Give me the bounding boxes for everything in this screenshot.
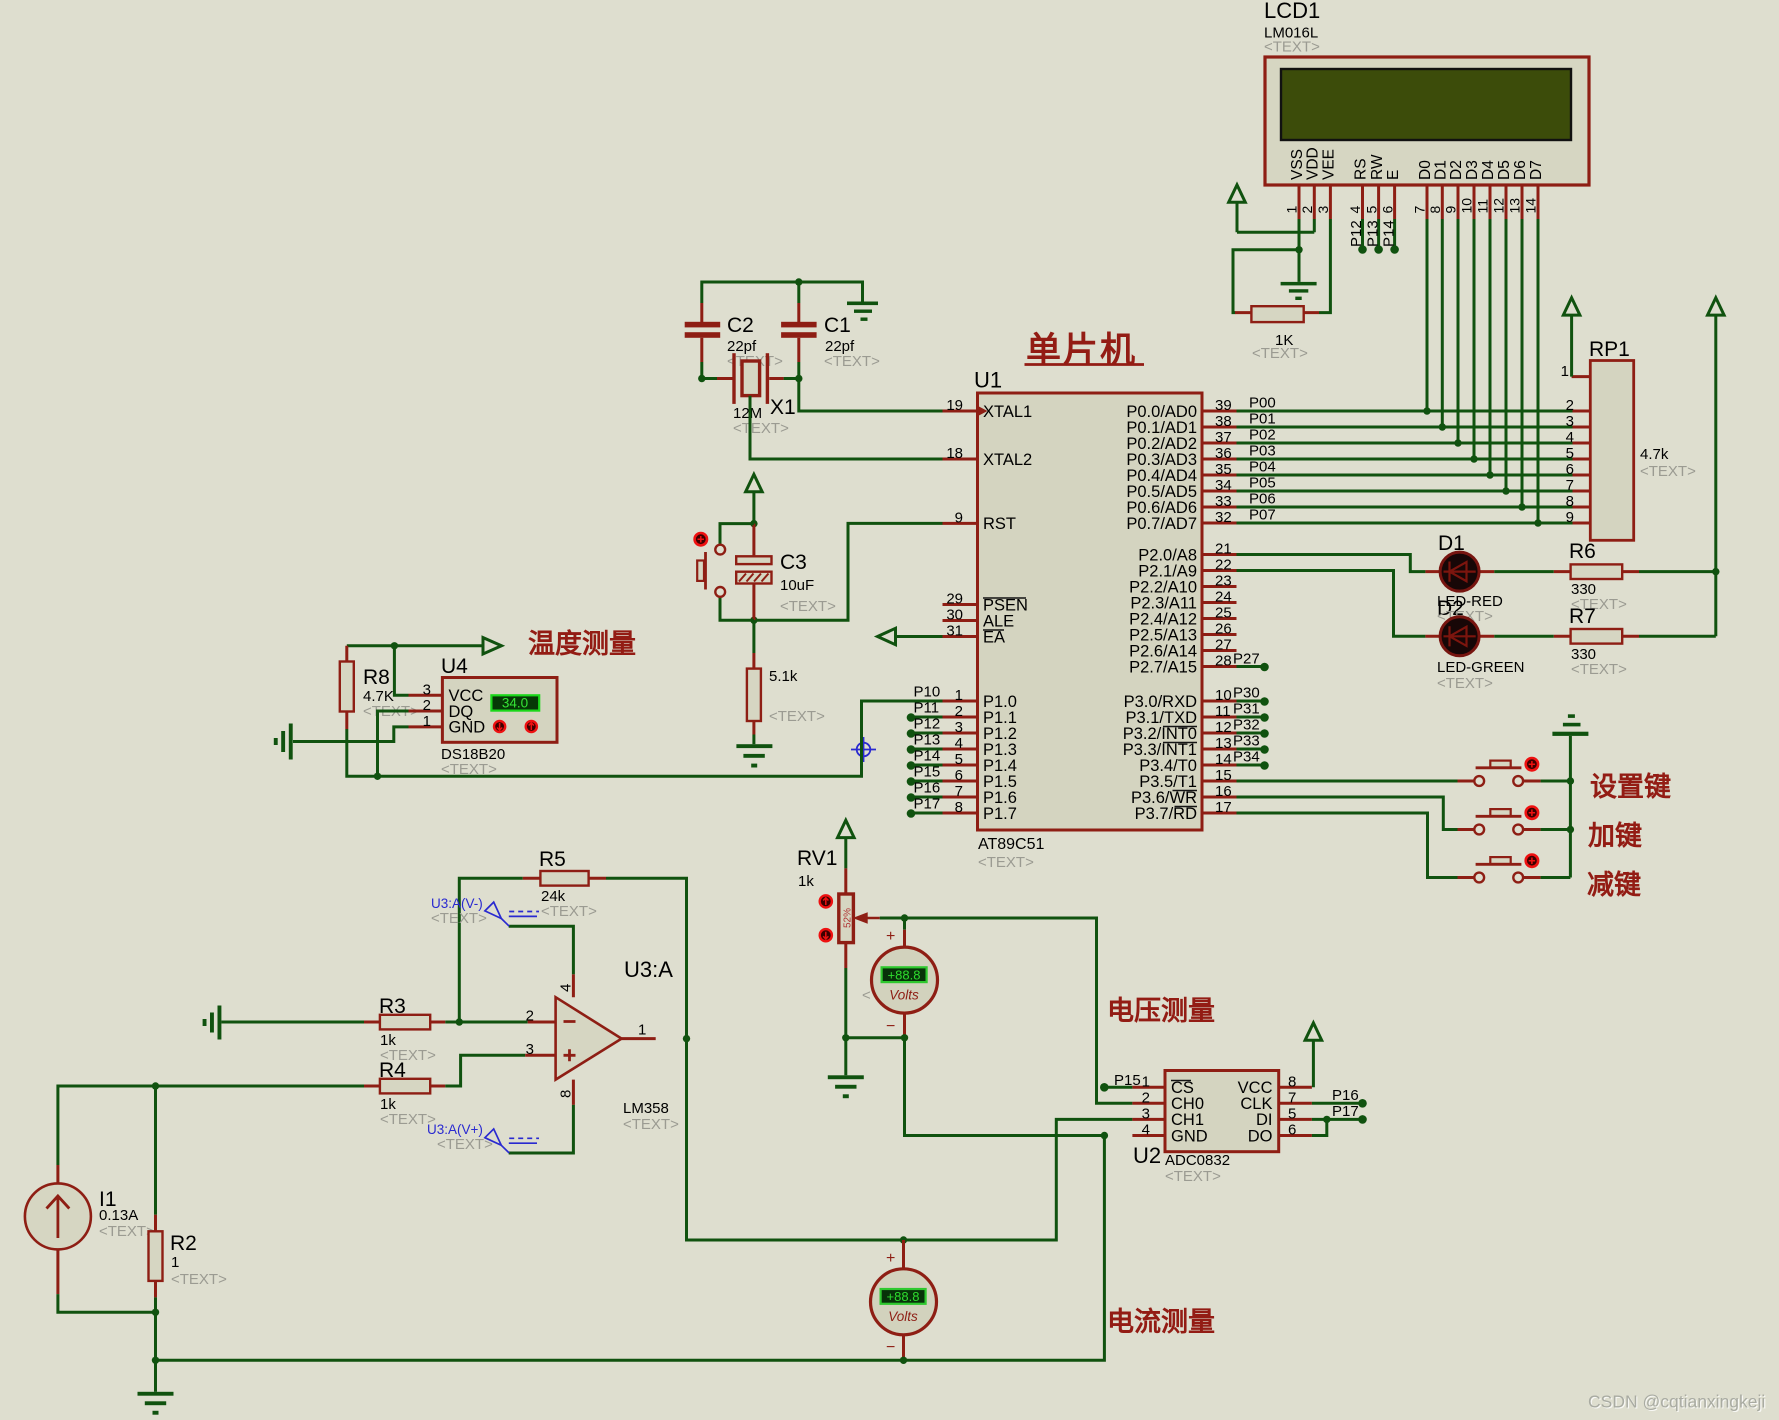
svg-text:ADC0832: ADC0832 [1165,1152,1230,1169]
svg-text:17: 17 [1215,799,1232,816]
U2 TEXT placeholder [1165,1168,1221,1185]
svg-text:<TEXT>: <TEXT> [437,1136,493,1153]
svg-text:<TEXT>: <TEXT> [780,598,836,615]
R5 TEXT placeholder [541,903,597,920]
title 单片机 [1025,331,1145,370]
svg-text:<TEXT>: <TEXT> [978,854,1034,871]
R2 TEXT placeholder [171,1271,227,1288]
svg-text:R3: R3 [379,995,406,1018]
svg-text:4.7k: 4.7k [1640,446,1669,463]
virtual terminal U3:A(V+) [485,1129,539,1153]
C1 TEXT placeholder [824,353,880,370]
svg-text:<TEXT>: <TEXT> [1252,345,1308,362]
wire DQ to P10 [378,711,409,776]
svg-text:1: 1 [955,687,963,704]
terminal nodes P11-P17 [907,713,916,818]
svg-text:P31: P31 [1233,701,1260,718]
wire minus key to rail [1541,876,1571,879]
svg-text:1: 1 [1142,1073,1150,1090]
net labels P10-P17 [914,684,941,813]
svg-text:7: 7 [1412,206,1428,214]
svg-text:18: 18 [946,445,963,462]
I1 value 0.13A [99,1207,138,1224]
svg-text:3: 3 [1315,206,1331,214]
wire D4 column [1489,219,1492,475]
svg-text:<TEXT>: <TEXT> [541,903,597,920]
op-amp U1 reference label [974,368,1002,393]
wires P30-P34 stubs [1237,701,1262,765]
U2 reference label [1133,1143,1161,1168]
ground for R3 [203,1006,222,1040]
ground above C1 [847,302,878,321]
svg-text:6: 6 [1379,206,1395,214]
terminal node P15 on CS [1100,1083,1109,1092]
LCD1 pin names VSS VDD VEE RS RW E D0-D7 [1289,147,1545,180]
VM1 TEXT remnant [862,987,871,1004]
svg-text:P27: P27 [1233,651,1260,668]
svg-text:2: 2 [1299,206,1315,214]
svg-text:GND: GND [1171,1127,1208,1145]
svg-text:D4: D4 [1480,160,1497,180]
junction DI DO node [1323,1116,1330,1123]
wire pin4 to V- terminal [509,926,574,974]
svg-text:13: 13 [1507,198,1523,214]
wire RV1 bottom to ground [844,968,847,1075]
junction VM2 minus node [900,1357,907,1364]
wire DO tied to DI [1312,1119,1327,1135]
terminal node P33 [1233,733,1269,754]
svg-text:P15: P15 [914,764,941,781]
I1 TEXT placeholder [99,1223,155,1240]
svg-text:32: 32 [1215,509,1232,526]
adc U2 ADC0832 body [1132,1071,1312,1152]
wire I1 top to R4 row [58,1086,364,1165]
svg-text:3: 3 [1566,413,1574,430]
wire CLK to P16 [1312,1102,1359,1105]
LED D1 red [1425,552,1494,591]
R8 TEXT placeholder [363,703,419,720]
R5 value 24k [541,888,566,905]
svg-text:26: 26 [1215,621,1232,638]
wire D3 column [1473,219,1476,459]
U1 TEXT placeholder [978,854,1034,871]
svg-text:6: 6 [1566,461,1574,478]
svg-text:9: 9 [955,509,963,526]
wire P00 row [1237,410,1573,413]
wire U4 GND to ground [293,727,409,742]
C2 TEXT placeholder [727,353,783,370]
svg-text:LCD1: LCD1 [1264,0,1320,23]
junction R2 top node [152,1082,159,1089]
wire P03 row [1237,458,1573,461]
wire D6 column [1521,219,1524,507]
wire R3 to junction [445,1021,459,1024]
D2 TEXT placeholder [1437,675,1493,692]
voltmeter VM1 plus mark [886,928,895,945]
resistor R4 [364,1079,445,1094]
svg-text:25: 25 [1215,605,1232,622]
svg-text:1k: 1k [798,873,814,890]
svg-text:4: 4 [1566,429,1574,446]
wire DI to P17 [1312,1118,1359,1121]
label 加键 [1588,820,1642,851]
junction R8 top node [391,642,398,649]
svg-text:+: + [886,1250,895,1267]
LCD1 pin numbers 1-14 [1284,198,1539,214]
ground below RV1 [828,1075,864,1098]
svg-text:36: 36 [1215,445,1232,462]
svg-text:1: 1 [638,1022,646,1039]
resistor R5 feedback [523,871,606,886]
wire VCC to U4 VCC pin [394,646,408,696]
wire crystal top to ground [702,282,863,303]
svg-text:P16: P16 [914,780,941,797]
svg-text:4: 4 [558,984,575,992]
5.1k TEXT placeholder [769,708,825,725]
D1 value LED-RED [1437,593,1503,610]
D1 TEXT placeholder [1437,608,1493,625]
RV1 reference label [797,847,837,870]
power terminal VCC for RP1 [1563,298,1580,377]
svg-text:4: 4 [955,735,963,752]
minus key actuator [1526,855,1538,867]
R6 value 330 [1571,581,1596,598]
svg-text:24: 24 [1215,589,1232,606]
wire P35 to set key [1237,780,1458,783]
svg-text:8: 8 [1288,1073,1296,1090]
X1 value 12M [733,405,762,422]
svg-text:温度测量: 温度测量 [528,628,636,659]
wire R2 top [154,1086,157,1215]
D2 reference label [1437,597,1464,620]
U3:A(V-) TEXT placeholder [431,910,487,927]
svg-text:P16: P16 [1332,1087,1359,1104]
junction crystal top node [795,278,802,285]
wire D2 column [1457,219,1460,443]
U4 up button [526,721,537,732]
LED D2 green [1425,617,1494,656]
U4 TEXT placeholder [441,761,497,778]
svg-text:U3:A: U3:A [624,957,673,982]
svg-text:8: 8 [1566,493,1574,510]
watermark CSDN [1588,1391,1766,1412]
svg-text:AT89C51: AT89C51 [978,836,1045,853]
wire P36 to plus key [1237,797,1458,830]
U3:A value LM358 [623,1100,669,1117]
svg-text:13: 13 [1215,735,1232,752]
svg-text:6: 6 [1288,1122,1296,1139]
U2 value ADC0832 [1165,1152,1230,1169]
svg-text:R6: R6 [1569,540,1596,563]
svg-text:RP1: RP1 [1589,338,1630,361]
svg-text:21: 21 [1215,541,1232,558]
U4 pin numbers 3 2 1 [423,681,431,730]
RP1 pin numbers [1561,363,1574,526]
U2 CS overline [1171,1080,1191,1082]
power terminal VCC for reset [746,474,763,523]
wire plus key to rail [1541,828,1571,831]
wire P15 to CS [1104,1086,1132,1089]
terminal node P14 [1390,245,1399,254]
LCD1 screen [1281,69,1571,140]
svg-text:P06: P06 [1249,491,1276,508]
terminal node P31 [1233,701,1269,722]
terminal node P12 [1358,245,1367,254]
RP1 reference label [1589,338,1630,361]
svg-text:<: < [862,987,871,1004]
terminal node P27 [1233,651,1269,672]
svg-text:4: 4 [1347,206,1363,214]
U3:A(V+) label [427,1122,483,1137]
svg-text:电压测量: 电压测量 [1107,996,1215,1026]
svg-text:<TEXT>: <TEXT> [769,708,825,725]
RP1 value 4.7k [1640,446,1669,463]
wire P27 stub [1237,665,1262,668]
svg-text:D5: D5 [1496,160,1513,180]
wire wiper node to voltmeter plus [903,918,906,930]
U1 left pin stubs [943,411,978,813]
C2 reference label [727,314,754,337]
junction plus key node [1567,826,1574,833]
wire reset button top [720,524,754,544]
wire P20 to D1 [1237,555,1426,572]
R8 reference label [363,666,390,689]
power terminal VCC for ADC [1305,1023,1322,1088]
junction crystal left node [698,375,705,382]
U1 clock input arrow on XTAL1 [978,406,988,416]
svg-text:C2: C2 [727,314,754,337]
LCD1 TEXT placeholder [1264,39,1320,56]
RV1 percent label [843,908,854,928]
terminal node P34 [1233,749,1269,770]
U3:A(V+) TEXT placeholder [437,1136,493,1153]
RV1 up button [820,895,832,907]
temperature sensor U4 DS18B20 [409,678,558,743]
wire bottom node to ground [154,1360,157,1392]
LCD1 value LM016L [1264,25,1318,42]
svg-text:30: 30 [946,607,963,624]
push button set key [1458,761,1541,786]
svg-text:R8: R8 [363,666,390,689]
RV1 wiper arrow [856,914,880,922]
junction set key node [1567,777,1574,784]
wire D0 column [1426,219,1429,411]
svg-text:U3:A(V-): U3:A(V-) [431,896,483,911]
svg-text:8: 8 [558,1090,575,1098]
output terminal arrow temperature [483,638,502,654]
junction DQ node [374,773,381,780]
svg-text:电流测量: 电流测量 [1107,1307,1215,1337]
U1 right pin names [1123,403,1197,823]
wire reset button bottom [720,598,754,621]
svg-text:LM358: LM358 [623,1100,669,1117]
C3 reference label [780,551,807,574]
svg-text:<TEXT>: <TEXT> [1165,1168,1221,1185]
wires P11-P17 stubs to terminals [911,717,943,813]
svg-text:P17: P17 [914,796,941,813]
terminal node P32 [1233,717,1269,738]
svg-text:38: 38 [1215,413,1232,430]
svg-text:P03: P03 [1249,443,1276,460]
U2 pin numbers [1142,1073,1297,1138]
push button plus key [1458,809,1541,834]
svg-text:R7: R7 [1569,605,1596,628]
U4 reference label [441,655,468,678]
wire VM1 minus to ADC ground [846,1038,1105,1136]
power terminal VCC for LEDs [1708,298,1725,315]
svg-text:12: 12 [1215,719,1232,736]
wire reset to 5.1k [752,620,755,653]
R7 value 330 [1571,646,1596,663]
crystal X1 [717,353,784,404]
voltmeter VM1 [872,930,938,1038]
svg-text:Volts: Volts [889,988,919,1003]
svg-text:5: 5 [1288,1105,1296,1122]
virtual terminal U3:A(V-) [485,902,539,926]
svg-text:10uF: 10uF [780,577,814,594]
resistor R3 [364,1015,445,1030]
svg-text:P34: P34 [1233,749,1260,766]
svg-text:22: 22 [1215,557,1232,574]
svg-text:减键: 减键 [1587,869,1641,900]
svg-text:<TEXT>: <TEXT> [1437,675,1493,692]
capacitor C1 [781,303,817,362]
svg-text:5: 5 [955,751,963,768]
svg-text:R4: R4 [379,1059,406,1082]
current source I1 [25,1165,91,1294]
svg-text:D1: D1 [1438,532,1465,555]
resistor 1K value label [1275,332,1293,349]
svg-text:P33: P33 [1233,733,1260,750]
C3 value 10uF [780,577,814,594]
svg-text:<TEXT>: <TEXT> [99,1223,155,1240]
U3:A pin numbers [526,984,647,1098]
D1 reference label [1438,532,1465,555]
svg-text:D3: D3 [1464,160,1481,180]
svg-text:D2: D2 [1448,160,1465,180]
wire D1 column [1441,219,1444,427]
svg-text:52%: 52% [843,908,854,928]
svg-text:<TEXT>: <TEXT> [441,761,497,778]
svg-text:P13: P13 [914,732,941,749]
svg-text:<TEXT>: <TEXT> [824,353,880,370]
U2 right pin names [1238,1079,1273,1145]
svg-text:CSDN @cqtianxingkeji: CSDN @cqtianxingkeji [1588,1391,1765,1411]
junction RV1 bottom node [842,1034,849,1041]
svg-text:加键: 加键 [1588,820,1642,851]
svg-text:28: 28 [1215,653,1232,670]
svg-text:5: 5 [1566,445,1574,462]
R5 reference label [539,848,566,871]
wire EA to input terminal [896,635,943,638]
wire VSS to ground [1298,219,1301,282]
U1 value AT89C51 [978,836,1045,853]
wire R5 left to inverting input [459,878,527,1022]
R3 TEXT placeholder [380,1047,436,1064]
svg-text:4: 4 [1142,1122,1150,1139]
svg-text:9: 9 [1443,206,1459,214]
push button reset [697,545,725,597]
wire D2 to R7 [1494,635,1554,638]
svg-text:P3.7/RD: P3.7/RD [1135,805,1197,823]
node labels P12 P13 P14 [1348,220,1397,247]
LCD1 LM016L display module [1265,57,1589,185]
svg-text:P30: P30 [1233,685,1260,702]
svg-text:<TEXT>: <TEXT> [733,420,789,437]
wire P37 to minus key [1237,813,1458,878]
wire C1 to crystal right to XTAL1 [784,362,943,411]
svg-text:19: 19 [946,397,963,414]
wire P02 row [1237,442,1573,445]
wire VCC rail to terminal [347,644,483,647]
svg-text:1: 1 [423,713,431,730]
U1 PSEN and EA overlines [983,598,1026,630]
svg-text:14: 14 [1523,198,1539,214]
net label P15 [1114,1072,1141,1089]
svg-text:P13: P13 [1364,220,1381,247]
svg-text:P14: P14 [914,748,941,765]
ground for LCD VSS [1281,282,1317,300]
svg-text:−: − [886,1018,895,1035]
svg-text:P12: P12 [914,716,941,733]
svg-text:RST: RST [983,515,1016,533]
svg-text:2: 2 [526,1008,534,1025]
wire R4 to non-inverting input [445,1055,525,1086]
svg-text:1: 1 [171,1254,179,1271]
svg-text:31: 31 [946,623,963,640]
svg-text:3: 3 [526,1041,534,1058]
U4 pin names VCC DQ GND [449,687,486,737]
D2 value LED-GREEN [1437,659,1525,676]
svg-text:VEE: VEE [1321,149,1338,180]
R3 reference label [379,995,406,1018]
voltmeter VM2 plus mark [886,1250,895,1267]
C3 TEXT placeholder [780,598,836,615]
wire P04 row [1237,474,1573,477]
terminal node P30 [1233,685,1269,706]
svg-text:P0.7/AD7: P0.7/AD7 [1126,515,1197,533]
U3:A reference label [624,957,673,982]
RP1 TEXT placeholder [1640,463,1696,480]
junction R2 bottom node [152,1309,159,1316]
svg-text:6: 6 [955,767,963,784]
svg-text:RV1: RV1 [797,847,837,870]
U3:A TEXT placeholder [623,1116,679,1133]
svg-text:39: 39 [1215,397,1232,414]
junction dots D0-D7 onto P0 rows [1423,407,1541,526]
junction inverting input node [456,1018,463,1025]
svg-text:P07: P07 [1249,507,1276,524]
origin marker crosshair [851,737,876,762]
junction current line node [900,1236,907,1243]
LCD1 label [1264,0,1320,23]
svg-text:P12: P12 [1348,220,1365,247]
svg-text:+: + [886,928,895,945]
voltmeter VM1 minus mark [886,1018,895,1035]
svg-text:<TEXT>: <TEXT> [1264,39,1320,56]
R6 reference label [1569,540,1596,563]
resistor 1K contrast [1235,306,1319,322]
resistor 5.1k [747,653,761,735]
resistor R6 [1554,564,1639,579]
ground bottom left [138,1392,174,1415]
U1 right pin stubs [1202,411,1237,813]
svg-text:23: 23 [1215,573,1232,590]
wire wiper to CH0 [880,918,1133,1103]
svg-text:XTAL1: XTAL1 [983,403,1032,421]
wire D5 column [1505,219,1508,491]
svg-text:14: 14 [1215,751,1232,768]
